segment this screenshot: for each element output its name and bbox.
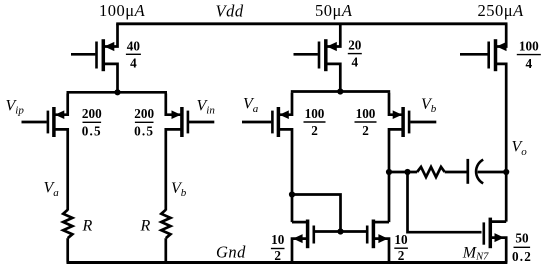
svg-text:0.5: 0.5 <box>134 123 154 138</box>
svg-text:50: 50 <box>515 231 529 246</box>
node tail2 junction dot <box>337 88 343 94</box>
wire M5 source to Gnd <box>292 239 308 263</box>
node output dot <box>503 169 509 175</box>
wire MN7 source to Gnd <box>490 238 506 263</box>
transistor MT2 (PMOS 20/4 current source, stage 2) <box>294 39 337 71</box>
svg-text:200: 200 <box>134 106 154 121</box>
transistor M6 (NMOS 10/2 mirror right) <box>367 220 388 249</box>
wire mirror diode connection <box>292 195 341 232</box>
wire compensation node horizontal <box>389 171 417 174</box>
wire tail node horizontal stage2 <box>291 90 390 93</box>
wire tail node horizontal stage1 <box>67 91 168 94</box>
svg-text:10: 10 <box>394 232 408 247</box>
wire MT3 drain to output node <box>496 64 507 222</box>
wire M6 drain lead <box>373 221 389 224</box>
wire M1 drain down to R <box>54 129 68 210</box>
value 100/2 right <box>355 106 377 138</box>
wire gate to gate of mirror <box>315 230 366 233</box>
svg-text:R: R <box>82 217 93 234</box>
svg-text:4: 4 <box>352 55 359 70</box>
svg-text:2: 2 <box>274 248 281 263</box>
wire MT1 source to Vdd <box>103 24 117 47</box>
resistor R (right) <box>161 210 170 238</box>
capacitor Cc curved plate <box>476 160 483 184</box>
transistor MT3 (PMOS 100/4 current source, output stage) <box>460 39 507 71</box>
svg-text:Vdd: Vdd <box>216 1 244 20</box>
value 200/0.5 left <box>82 106 102 138</box>
svg-text:0.5: 0.5 <box>82 123 102 138</box>
svg-text:0.2: 0.2 <box>512 249 532 264</box>
wire MT2 source to Vdd <box>326 24 341 47</box>
svg-text:2: 2 <box>311 123 318 138</box>
wire MN7 drain lead <box>490 220 506 223</box>
svg-text:4: 4 <box>526 56 533 71</box>
wire Rz to Cc <box>445 171 467 174</box>
svg-text:100: 100 <box>356 106 376 121</box>
node tail1 junction dot <box>114 89 120 95</box>
node M3 drain / mirror dot <box>289 191 295 197</box>
value 50/0.2 <box>512 231 532 265</box>
wire MT2 drain to tail node 2 <box>326 64 341 92</box>
wire M4 drain down to M6 drain <box>389 129 403 222</box>
transistor MT1 (PMOS 40/4 current source, stage 1) <box>71 39 114 71</box>
wire M3 drain down to mirror <box>278 129 292 222</box>
value 10/2 right <box>394 232 408 263</box>
svg-text:100μA: 100μA <box>99 1 146 20</box>
svg-text:250μA: 250μA <box>478 1 525 20</box>
Gnd rail <box>67 261 508 264</box>
value 200/0.5 right <box>134 106 154 138</box>
resistor R (left) <box>63 210 72 238</box>
svg-text:100: 100 <box>519 39 539 54</box>
value 10/2 left <box>271 232 285 263</box>
transistor M3 (PMOS 100/2 input Va) <box>242 107 289 137</box>
capacitor Cc flat plate <box>466 159 469 184</box>
node mirror gate dot <box>337 228 343 234</box>
wire R left to Gnd <box>66 238 69 262</box>
svg-text:200: 200 <box>82 106 102 121</box>
transistor M1 (PMOS 200/0.5 input Vip) <box>22 107 65 137</box>
value 40/4 <box>126 38 141 70</box>
wire R right to Gnd <box>164 238 167 262</box>
svg-text:R: R <box>140 217 151 234</box>
wire M6 source to Gnd <box>373 239 389 263</box>
transistor M4 (PMOS 100/2 input Vb) <box>393 107 437 137</box>
wire M1 source up to tail <box>54 94 68 115</box>
svg-text:4: 4 <box>130 55 137 70</box>
svg-text:20: 20 <box>348 38 362 53</box>
transistor MN7 (NMOS 50/0.2 output) <box>484 218 504 249</box>
svg-text:Gnd: Gnd <box>216 243 246 262</box>
value 100/2 left <box>304 106 326 138</box>
svg-text:2: 2 <box>398 248 405 263</box>
wire Cc to output <box>478 171 507 174</box>
node compensation tap dot <box>404 169 410 175</box>
wire M4 source up to tail2 <box>389 93 403 115</box>
wire M3 source up to tail2 <box>278 93 292 115</box>
wire MT1 drain to tail node <box>103 64 117 92</box>
wire MT3 source to Vdd <box>496 24 507 47</box>
resistor Rz (compensation) <box>417 167 445 177</box>
transistor M2 (PMOS 200/0.5 input Vin) <box>172 107 215 137</box>
value 20/4 <box>348 38 362 70</box>
svg-text:2: 2 <box>362 123 369 138</box>
wire M5 drain lead <box>292 221 308 224</box>
svg-text:40: 40 <box>127 38 141 53</box>
wire M2 drain down to R <box>166 129 182 210</box>
transistor M5 (NMOS 10/2 mirror left) <box>293 220 314 249</box>
wire gate feed down and to MN7 <box>408 172 482 232</box>
node M4 drain / compensation dot <box>386 169 392 175</box>
svg-text:50μA: 50μA <box>315 1 353 20</box>
svg-text:10: 10 <box>271 232 285 247</box>
Vdd rail <box>116 22 507 25</box>
svg-text:100: 100 <box>305 106 325 121</box>
value 100/4 <box>517 39 541 71</box>
wire M2 source up to tail <box>166 94 182 115</box>
